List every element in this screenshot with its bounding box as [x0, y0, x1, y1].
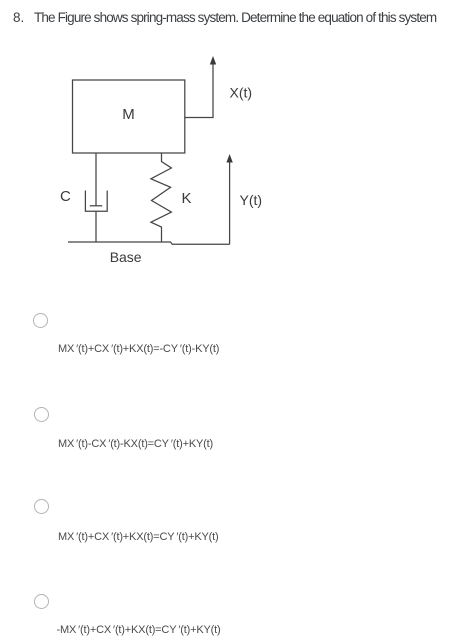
damper cup — [85, 191, 107, 212]
damper piston — [90, 205, 102, 207]
spring K — [151, 153, 172, 242]
arrow Y(t) head — [226, 154, 232, 163]
svg-text:Y(t): Y(t) — [240, 192, 263, 208]
svg-text:C: C — [60, 188, 71, 205]
damper lower rod — [95, 211, 97, 242]
damper C rod — [95, 153, 97, 206]
svg-text:K: K — [182, 190, 192, 207]
arrow X(t) head — [210, 56, 216, 65]
wire Y(t) vertical — [229, 160, 231, 244]
svg-text:X(t): X(t) — [230, 85, 253, 101]
mass M rectangle — [73, 80, 185, 153]
base line left — [68, 242, 230, 244]
svg-text:Base: Base — [110, 249, 142, 265]
svg-text:M: M — [122, 106, 135, 123]
wire X(t) stub — [185, 62, 213, 118]
